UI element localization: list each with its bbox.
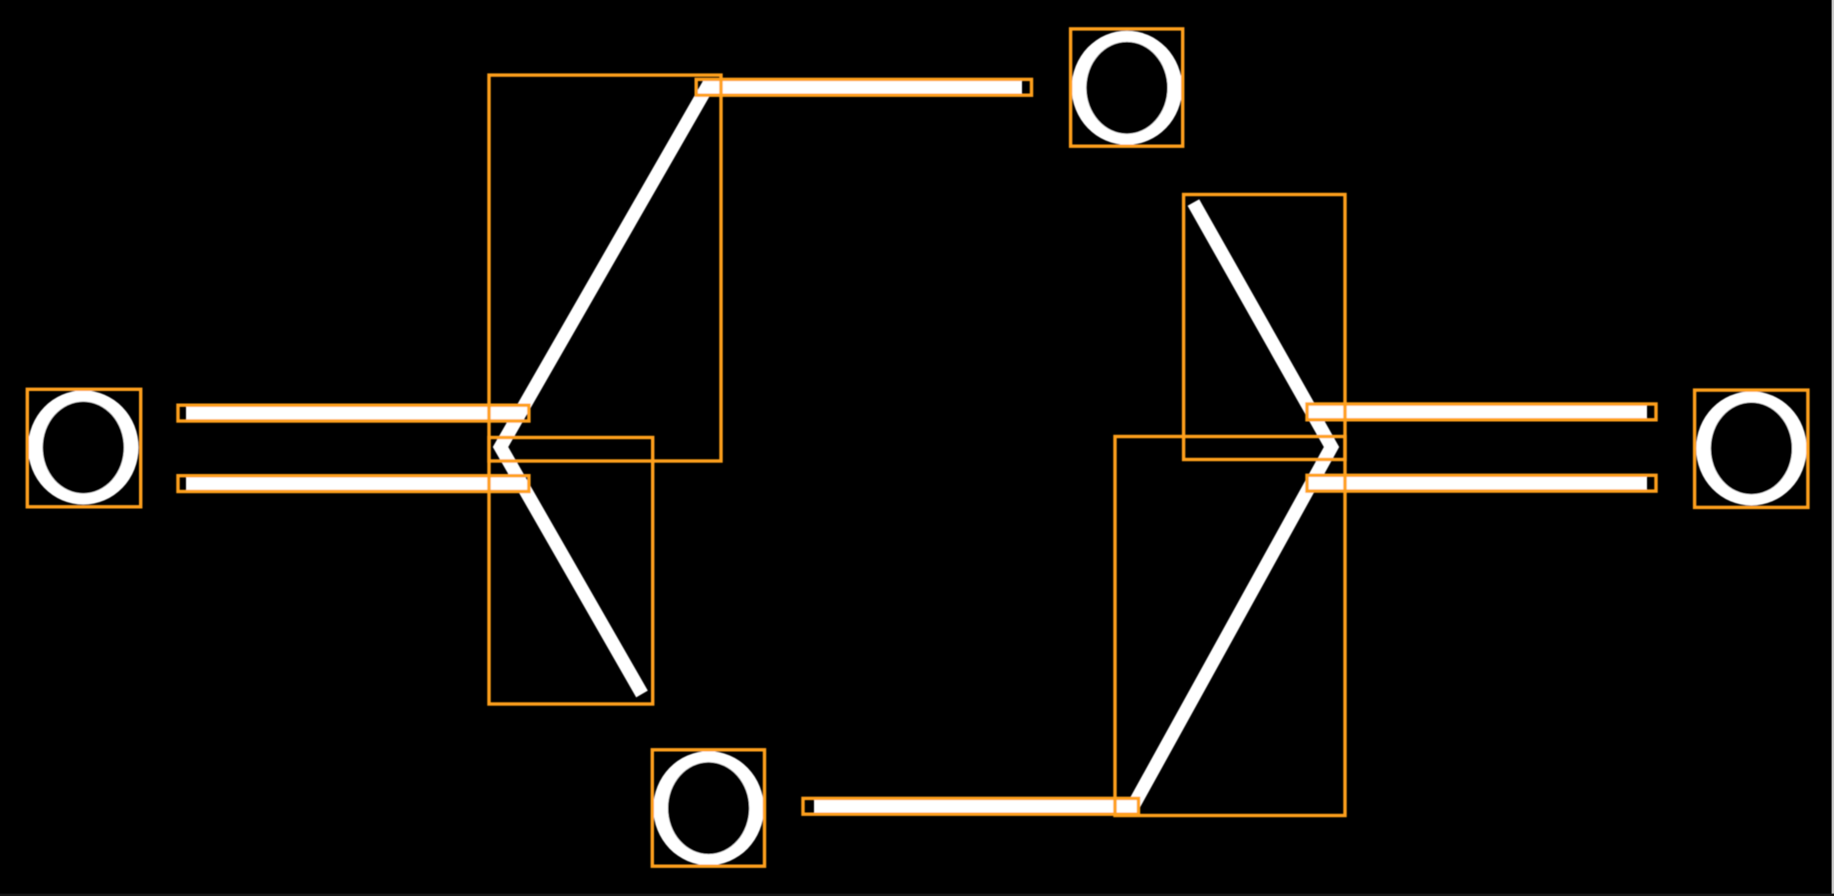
highlight box: lower-left diagonal bond <box>489 438 653 705</box>
highlight box: right double-bond upper line <box>1307 404 1656 420</box>
double bond C4=O right: upper line <box>1306 405 1647 418</box>
atom O right <box>1696 391 1807 505</box>
double bond C4=O right: lower line <box>1306 477 1647 490</box>
highlight box: upper-left diagonal bond <box>489 75 721 461</box>
highlight box: left double-bond lower line <box>178 476 529 492</box>
atom O left <box>28 390 139 504</box>
highlight box: right double-bond lower line <box>1307 475 1656 491</box>
highlight box: left double-bond upper line <box>178 405 529 421</box>
bond O-top to C-right diagonal + lower-right diagonal + bottom bond (wire path) <box>814 203 1332 807</box>
screenshot artifact: light scrollbar strip at right edge <box>1832 0 1834 896</box>
highlight box: O right atom <box>1695 390 1808 507</box>
double bond C1=O left: lower line <box>186 477 524 490</box>
double bond C1=O left: upper line <box>186 406 524 419</box>
highlight box: bottom horizontal bond <box>803 798 1139 814</box>
highlight box: O bottom atom <box>652 750 764 866</box>
atom O bottom <box>653 751 764 865</box>
highlight box: O left atom <box>27 389 140 507</box>
highlight box: lower-right diagonal bond <box>1115 437 1345 816</box>
bond C6-C1: top bond + upper-left diagonal + lower-left diagonal (wire path) <box>501 87 1023 694</box>
highlight box: upper-right diagonal bond <box>1184 195 1345 460</box>
highlight box: top horizontal bond <box>696 79 1031 95</box>
screenshot artifact: faint dark band at bottom edge <box>0 894 1834 896</box>
highlight box: O top atom <box>1071 29 1183 146</box>
atom O top <box>1072 31 1183 145</box>
